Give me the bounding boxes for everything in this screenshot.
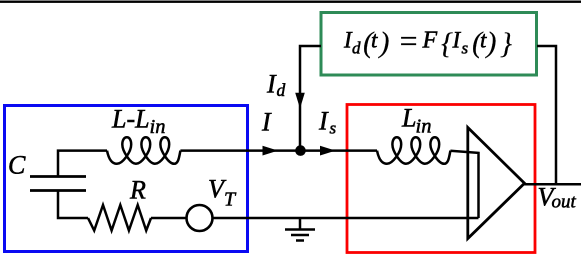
wire: top branch from junction into red box [300,149,377,152]
wire: capacitor bottom stub to resistor [58,191,88,218]
ground [285,218,315,241]
wire: top branch from coil to junction [180,149,300,152]
top horizontal rule [0,1,581,3]
resistor R (zigzag) [88,205,151,231]
wire: resistor to source VT [151,217,188,220]
svg-text:R: R [129,176,146,205]
wire: bottom branch from VT to amp [213,217,479,220]
wire: green box to output node [537,46,556,184]
inductor Lin (coil) [377,137,450,164]
box: feedback function (green) [321,13,537,76]
box: resonator network (blue) [5,106,248,252]
svg-text:Vout: Vout [538,183,577,213]
arrow: current Is [320,146,336,156]
inductor L-Lin (coil) [107,137,180,164]
arrow: current I [263,146,279,156]
svg-text:Lin: Lin [401,104,431,138]
source VT (circle) [187,205,213,231]
capacitor C plates [30,177,86,191]
wire: capacitor top stub and corner to inductor [58,151,107,177]
svg-text:C: C [8,151,26,180]
wire: Id vertical from junction to green box [300,46,321,151]
wire: output from amp apex [524,183,581,186]
arrow: current Id (down) [295,93,305,109]
svg-text:Is: Is [318,107,337,138]
box: laser diode section (red) [347,105,535,253]
junction node dot [295,145,306,156]
wire: coil to amp input connector [450,151,478,218]
svg-text:I: I [261,108,272,137]
svg-text:L-Lin: L-Lin [111,105,165,139]
amplifier triangle [468,128,525,239]
svg-text:Id: Id [266,70,286,101]
svg-text:VT: VT [208,175,237,211]
svg-text:Id(t)=F{Is(t)}: Id(t)=F{Is(t)} [343,23,512,61]
